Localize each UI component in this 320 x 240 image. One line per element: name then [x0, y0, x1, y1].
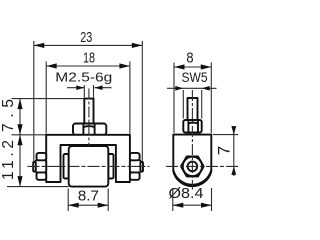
extension line SW5 left — [182, 90, 184, 119]
side view threaded stem — [188, 98, 198, 120]
dimension line SW5 with outside arrows — [167, 87, 217, 89]
front view bracket fork outline — [46, 135, 130, 182]
side view bracket with round bottom — [173, 135, 211, 185]
extension line dia 8.4 left — [172, 188, 174, 211]
svg-text:M2.5-6g: M2.5-6g — [55, 69, 112, 84]
extension line 18 left — [45, 62, 47, 134]
right washer — [108, 154, 113, 179]
nut inscribed circle — [183, 157, 202, 176]
axle hole circle — [188, 162, 198, 172]
dimension line 11.2 — [19, 135, 21, 187]
extension line 8 left — [173, 63, 175, 134]
extension line 18 right — [129, 62, 131, 134]
extension line 23 left — [33, 41, 35, 161]
front view axle centerline horizontal — [28, 165, 150, 167]
dimension line 7 with outside arrows — [233, 126, 235, 176]
axle hex nut side view hexagon — [181, 157, 204, 177]
roller front view — [69, 146, 109, 187]
dimension line dia 8.4 — [173, 204, 212, 206]
svg-text:8.7: 8.7 — [78, 189, 99, 205]
extension line 8.7 left — [67, 189, 69, 212]
svg-text:SW5: SW5 — [182, 70, 208, 85]
svg-text:8: 8 — [186, 51, 193, 67]
svg-text:7: 7 — [215, 146, 234, 155]
extension line 8.7 right — [107, 189, 109, 212]
dimension line 8 — [174, 66, 211, 68]
extension line dia 8.4 right — [211, 188, 213, 211]
extension line M2.5 left — [83, 85, 85, 98]
dimension line M2.5 left with arrow — [67, 87, 84, 89]
extension line 23 right — [141, 41, 143, 161]
extension line M2.5 right — [93, 85, 95, 98]
left axle tip — [33, 162, 36, 172]
front view threaded stem M2.5 — [84, 99, 93, 124]
dimension line 23 — [34, 44, 143, 46]
right axle tip — [140, 162, 143, 172]
extension line bracket top left — [12, 134, 47, 136]
extension line 8 right — [210, 63, 212, 134]
extension line roller bottom left — [7, 186, 69, 188]
extension line SW5 right — [201, 90, 203, 119]
dimension line 8.7 — [68, 204, 108, 206]
side view centerline horizontal — [166, 165, 238, 167]
extension line 7 top — [213, 134, 238, 136]
dimension line 7.5 — [19, 99, 21, 135]
svg-text:23: 23 — [80, 30, 92, 46]
right axle hex nut — [130, 153, 141, 180]
left washer — [64, 154, 69, 179]
front view hex nut SW5 across corners — [73, 124, 106, 135]
dimension line 18 — [46, 65, 130, 67]
svg-text:18: 18 — [83, 51, 95, 67]
side view hex nut SW5 across flats — [183, 120, 201, 133]
front view centerline vertical — [88, 89, 90, 146]
side view centerline vertical — [191, 90, 193, 190]
roller circle bottom arc — [173, 171, 211, 187]
dimension line M2.5 right with arrow — [95, 87, 112, 89]
extension line stem tip left — [12, 98, 85, 100]
svg-text:7.5: 7.5 — [0, 99, 17, 132]
svg-text:Ø8.4: Ø8.4 — [169, 186, 204, 202]
left axle hex nut — [35, 153, 46, 180]
